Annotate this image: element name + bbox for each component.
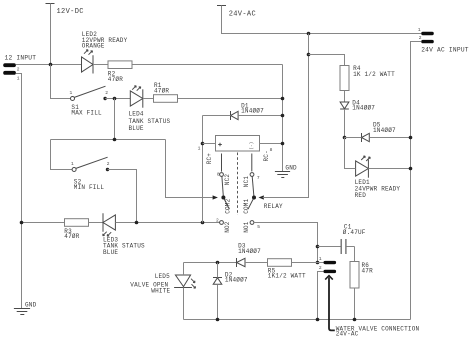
svg-text:47ØR: 47ØR xyxy=(154,88,169,95)
svg-text:8: 8 xyxy=(217,171,220,177)
wire rail to S1 xyxy=(51,65,71,99)
capacitor C1 0.47UF xyxy=(318,224,366,254)
svg-text:47ØR: 47ØR xyxy=(64,233,79,240)
wire S1 to LED4 xyxy=(105,98,130,100)
svg-text:7: 7 xyxy=(257,175,260,181)
node D4 / D5 / LED1 xyxy=(343,136,347,140)
wire R4 feed xyxy=(309,55,345,66)
node valve pin2 / bottom rail xyxy=(316,318,320,322)
wire LED3 to relay NO2 xyxy=(115,222,219,224)
node S1 branch xyxy=(113,97,117,101)
resistor R5 1K1/2 WATT xyxy=(268,259,307,280)
wire LED1 to return column xyxy=(368,168,410,170)
svg-text:1: 1 xyxy=(418,27,421,33)
svg-text:2: 2 xyxy=(419,35,422,41)
wire min fill feed row xyxy=(51,139,166,141)
relay contact COM1 xyxy=(243,177,256,214)
svg-text:1: 1 xyxy=(71,161,74,167)
svg-text:NC2: NC2 xyxy=(224,174,231,186)
wire J1 pin2 to 12V rail junction xyxy=(16,64,82,66)
LED LED2 12VPWR READY ORANGE xyxy=(82,31,128,73)
wire S2 down to LED3 net xyxy=(108,170,137,223)
svg-text:RELAY: RELAY xyxy=(264,203,283,210)
resistor R4 1K 1/2 WATT xyxy=(340,65,395,91)
svg-text:1: 1 xyxy=(319,256,322,262)
svg-text:1N4ØØ7: 1N4ØØ7 xyxy=(225,277,248,284)
svg-text:GND: GND xyxy=(285,164,297,171)
svg-text:1N4ØØ7: 1N4ØØ7 xyxy=(352,105,375,112)
wire LED4 to R1 xyxy=(143,98,154,100)
node C1 tap xyxy=(316,245,320,249)
ground (main) xyxy=(14,301,37,314)
wire D1 column down to NO2 net xyxy=(202,116,204,223)
svg-text:2: 2 xyxy=(216,218,219,224)
wire GND column to R3 xyxy=(22,222,65,224)
diode D1 1N4007 xyxy=(231,102,265,120)
wire R4 to D4 xyxy=(344,91,346,103)
LED LED3 TANK STATUS BLUE xyxy=(103,213,145,256)
node D5 / return column xyxy=(409,136,413,140)
svg-text:COM2: COM2 xyxy=(225,198,232,213)
connector J1 12 INPUT xyxy=(3,54,36,81)
node coil RC+ tap xyxy=(201,221,205,225)
node D2 bottom xyxy=(216,318,220,322)
svg-text:Ø.47UF: Ø.47UF xyxy=(343,229,366,236)
diode D5 1N4007 xyxy=(362,122,397,142)
svg-text:24V-AC: 24V-AC xyxy=(229,10,256,18)
svg-text:1: 1 xyxy=(198,145,201,151)
wire 24V hot down to COM1 xyxy=(263,34,309,198)
svg-text:MIN FILL: MIN FILL xyxy=(74,184,105,191)
wire D5 right xyxy=(369,137,410,139)
node R6 / bottom rail xyxy=(353,318,357,322)
wire row down to S2 xyxy=(51,140,73,170)
resistor R1 470R xyxy=(154,82,178,102)
node S2 tap xyxy=(135,221,139,225)
wire LED5 to D3 xyxy=(184,262,237,264)
wire J1 pin1 to GND xyxy=(16,74,22,309)
diode D4 1N4007 xyxy=(340,99,375,111)
svg-text:12V-DC: 12V-DC xyxy=(57,8,84,16)
wire D3 to R5 xyxy=(245,262,268,264)
node branch row xyxy=(113,138,117,142)
wire R5 to valve pin1 xyxy=(292,262,324,264)
svg-text:ORANGE: ORANGE xyxy=(82,42,105,49)
svg-text:1N4ØØ7: 1N4ØØ7 xyxy=(373,127,396,134)
connector 24V AC INPUT xyxy=(418,27,469,53)
node 12V junction xyxy=(49,63,53,67)
svg-text:1N4ØØ7: 1N4ØØ7 xyxy=(241,108,264,115)
switch S2 MIN FILL xyxy=(71,157,110,191)
LED LED5 VALVE OPEN WHITE xyxy=(130,273,195,294)
svg-text:RC-: RC- xyxy=(263,150,270,161)
wire node down to LED1 xyxy=(345,138,356,169)
node LED1 / return column xyxy=(409,167,413,171)
wire valve pin2 down to bottom rail xyxy=(318,272,324,320)
LED LED4 TANK STATUS BLUE xyxy=(129,86,171,133)
svg-text:NO1: NO1 xyxy=(243,221,250,233)
relay contact NC1 xyxy=(243,154,260,188)
diode D2 1N4007 xyxy=(213,271,248,284)
svg-text:NO2: NO2 xyxy=(224,221,231,233)
svg-text:BLUE: BLUE xyxy=(103,249,118,256)
24V-AC power rail xyxy=(217,6,421,34)
wire LED5 top stub xyxy=(183,263,185,276)
svg-text:RC+: RC+ xyxy=(206,153,213,165)
relay actuation dashed link xyxy=(237,153,239,216)
wire D5 left xyxy=(345,137,362,139)
feed arrow COM2 xyxy=(213,195,218,199)
svg-text:MAX FILL: MAX FILL xyxy=(71,109,102,116)
wire D1 right xyxy=(238,115,282,117)
wire D1 left xyxy=(203,115,231,117)
svg-text:1N4ØØ7: 1N4ØØ7 xyxy=(238,248,261,255)
node GND column / R3 xyxy=(20,221,24,225)
svg-text:TANK STATUS: TANK STATUS xyxy=(129,118,171,125)
svg-text:COM1: COM1 xyxy=(243,198,250,213)
svg-text:24V AC INPUT: 24V AC INPUT xyxy=(421,46,469,53)
node D2 top xyxy=(216,261,220,265)
wire D4 to node xyxy=(344,109,346,138)
wire D2 bottom stub xyxy=(217,284,219,319)
water valve callout arrow xyxy=(325,276,419,338)
svg-text:RED: RED xyxy=(355,192,367,199)
wire 24V return xyxy=(411,42,422,320)
wire D2 top stub xyxy=(217,263,219,278)
svg-text:47ØR: 47ØR xyxy=(108,76,123,83)
relay contact NO2 xyxy=(216,218,231,233)
svg-text:2: 2 xyxy=(319,265,322,271)
node ground column / R1 xyxy=(281,97,285,101)
svg-text:8: 8 xyxy=(270,147,273,153)
node coil RC- / ground column xyxy=(281,142,285,146)
svg-text:2: 2 xyxy=(17,67,20,73)
wire R2 to ground column xyxy=(133,64,283,66)
switch S1 MAX FILL xyxy=(70,86,109,116)
relay contact NO1 xyxy=(243,221,260,233)
svg-text:1K1/2 WATT: 1K1/2 WATT xyxy=(268,273,306,280)
svg-text:GND: GND xyxy=(25,301,37,308)
wire R3 to LED3 xyxy=(89,222,104,224)
wire row down to relay COM2 xyxy=(166,140,213,198)
svg-text:12 INPUT: 12 INPUT xyxy=(5,54,37,61)
node 24V junction xyxy=(307,32,311,36)
relay coil K1 xyxy=(198,136,283,165)
svg-text:24V-AC: 24V-AC xyxy=(336,331,359,338)
resistor R6 47R xyxy=(350,262,373,289)
svg-text:2: 2 xyxy=(107,161,110,167)
svg-text:5: 5 xyxy=(257,224,260,230)
svg-text:1: 1 xyxy=(70,90,73,96)
node valve pin1 junction xyxy=(316,261,320,265)
node coil RC+ pin xyxy=(201,142,205,146)
node D1 / ground column xyxy=(281,114,285,118)
svg-text:1K 1/2 WATT: 1K 1/2 WATT xyxy=(353,71,395,78)
svg-text:2: 2 xyxy=(105,90,108,96)
svg-text:1: 1 xyxy=(17,75,20,81)
wire R6 to bottom rail xyxy=(354,288,356,320)
wire branch down to min-fill row xyxy=(114,99,116,140)
wire NO1 to valve pin1 xyxy=(254,223,317,263)
wire LED5 bottom stub xyxy=(183,288,185,320)
wire R1 to ground column xyxy=(178,98,283,100)
wire C1 to R6 xyxy=(354,247,356,262)
svg-text:47R: 47R xyxy=(362,267,374,274)
svg-text:LED4: LED4 xyxy=(129,111,144,118)
12V-DC power rail xyxy=(46,4,84,65)
wire bottom rail xyxy=(184,319,411,321)
feed arrow COM1 xyxy=(259,195,264,199)
svg-text:WHITE: WHITE xyxy=(151,288,170,295)
svg-text:BLUE: BLUE xyxy=(129,125,144,132)
svg-text:(-): (-) xyxy=(250,142,255,150)
relay contact NC2 xyxy=(217,154,231,186)
relay contact COM2 xyxy=(221,177,231,214)
node R4 tap xyxy=(307,53,311,57)
resistor R2 470R xyxy=(108,61,132,83)
ground (relay coil) xyxy=(275,164,297,177)
connector water valve xyxy=(319,256,336,273)
svg-text:NC1: NC1 xyxy=(243,176,250,188)
diode D3 1N4007 xyxy=(237,243,262,267)
svg-text:LED5: LED5 xyxy=(155,273,170,280)
wire ground column vertical xyxy=(282,65,284,172)
LED LED1 24VPWR READY RED xyxy=(355,156,401,199)
wire LED2 to R2 xyxy=(93,64,109,66)
resistor R3 470R xyxy=(64,219,88,241)
